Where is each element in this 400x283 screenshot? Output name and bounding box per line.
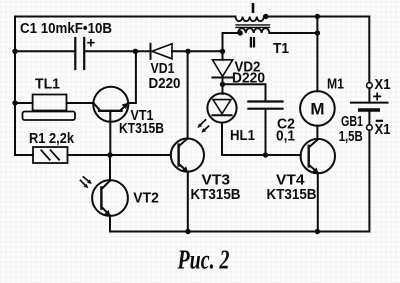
wire R1 to VT3 base — [68, 154, 171, 156]
wire right rail bottom — [368, 130, 370, 231]
label winding II — [250, 37, 252, 48]
wire TL1 to VT1 base — [67, 102, 94, 104]
LED HL1 emission arrows — [197, 120, 208, 133]
svg-text:1,5B: 1,5B — [339, 129, 363, 145]
battery GB1 negative plate — [360, 108, 379, 111]
svg-text:VD1: VD1 — [151, 61, 175, 77]
label winding I — [252, 3, 255, 13]
wire VT2 emitter to bottom rail — [109, 215, 111, 231]
wire C1 rail — [15, 50, 75, 52]
node left-rail/C1 junction — [12, 49, 17, 54]
wire X1 to battery — [368, 88, 370, 102]
wire VD1 to VD2 branch — [172, 50, 223, 52]
wire motor branch vertical — [316, 17, 318, 92]
svg-text:VT3: VT3 — [202, 172, 231, 188]
wire VT2 collector — [109, 155, 111, 180]
wire TL1 lead left — [15, 102, 33, 104]
wire winding II left lead down — [223, 33, 239, 51]
node winding II / VD2 junction — [220, 49, 225, 54]
node VD2 / C2 junction — [220, 82, 225, 87]
svg-text:GB1: GB1 — [341, 114, 363, 130]
capacitor C1 — [75, 38, 84, 69]
transistor VT1 — [93, 87, 128, 122]
transformer T1 core — [236, 25, 270, 28]
wire VT4 emitter — [317, 173, 319, 231]
resistor R1 — [33, 147, 68, 163]
transistor VT4 — [301, 139, 335, 173]
svg-text:C1 10mkF•10B: C1 10mkF•10B — [20, 21, 112, 37]
LED HL1 — [207, 93, 236, 122]
transistor VT2 — [92, 180, 128, 216]
wire M1 to VT4 collector — [316, 126, 318, 139]
svg-text:M: M — [310, 100, 324, 119]
wire battery to X1 bottom — [368, 110, 370, 125]
node motor branch / winding II junction — [315, 30, 320, 35]
node R1/VT1/VT2/VT3 junction — [107, 152, 112, 157]
transistor VT2 photo arrows — [80, 177, 91, 188]
transformer T1 secondary winding II — [238, 28, 269, 33]
node winding II phase dot — [238, 30, 243, 35]
battery GB1 positive plate — [351, 102, 388, 104]
wire winding II right lead — [269, 32, 317, 34]
diode VD2 — [213, 51, 233, 94]
svg-text:Рис. 2: Рис. 2 — [177, 245, 230, 275]
node left-rail/TL1 junction — [12, 100, 17, 105]
transformer T1 primary winding I — [236, 17, 264, 22]
svg-text:HL1: HL1 — [230, 128, 255, 144]
wire left rail — [14, 17, 16, 156]
wire C1 to VD1 — [84, 50, 150, 52]
wire VT1 emitter corner up to C1 rail — [128, 51, 136, 103]
wire HL1 cathode to VT4 base — [222, 123, 301, 155]
node VT1 collector junction — [133, 49, 138, 54]
node C2 / VT4 base junction — [263, 152, 268, 157]
svg-text:KT315B: KT315B — [119, 121, 164, 137]
transistor VT3 — [171, 139, 204, 173]
connector X1 bottom terminal — [367, 125, 373, 131]
wire bottom rail — [110, 231, 369, 233]
svg-text:+: + — [373, 89, 382, 106]
wire top rail left segment — [15, 16, 236, 18]
wire right rail top — [368, 17, 370, 83]
wire C2 branch — [223, 84, 266, 101]
svg-text:KT315B: KT315B — [267, 187, 317, 203]
svg-text:+: + — [87, 35, 96, 52]
svg-text:VT4: VT4 — [276, 172, 305, 188]
connector X1 top terminal — [367, 83, 373, 89]
motor M1 — [300, 91, 335, 126]
wire VT3 collector — [187, 51, 189, 138]
svg-text:M1: M1 — [327, 77, 344, 93]
wire VT3 emitter — [187, 172, 189, 232]
svg-text:0,1: 0,1 — [276, 129, 295, 145]
wire top rail right segment — [264, 16, 369, 18]
svg-text:D220: D220 — [232, 71, 265, 87]
node winding I phase dot — [263, 14, 268, 19]
node VT4 emitter junction — [315, 229, 320, 234]
telephone capsule TL1 — [23, 95, 76, 121]
svg-text:X1: X1 — [375, 122, 391, 138]
svg-text:KT315B: KT315B — [191, 187, 241, 203]
node top rail / motor branch junction — [315, 14, 320, 19]
label minus — [376, 120, 383, 122]
node VD1/VT3 collector junction — [185, 49, 190, 54]
svg-text:D220: D220 — [149, 76, 181, 92]
svg-text:VT2: VT2 — [133, 190, 159, 206]
svg-text:T1: T1 — [273, 41, 289, 57]
node VT3 emitter junction — [185, 229, 190, 234]
svg-text:R1 2,2k: R1 2,2k — [29, 131, 75, 147]
wire R1 rail / VT3 base — [15, 154, 33, 156]
wire C2 bottom lead — [265, 109, 267, 155]
capacitor C2 — [248, 102, 282, 109]
wire VT1 base lead down — [109, 122, 111, 155]
diode VD1 — [151, 44, 173, 59]
svg-text:TL1: TL1 — [35, 77, 60, 93]
